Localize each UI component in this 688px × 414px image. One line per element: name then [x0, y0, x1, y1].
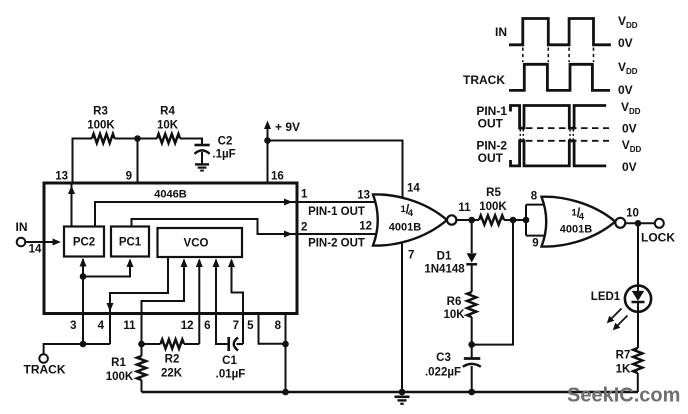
wire node X up to gate U3 inputs	[472, 220, 513, 345]
svg-text:OUT: OUT	[478, 117, 504, 131]
wire pin 7 to VCO	[232, 260, 244, 344]
wire gate U3 output to LOCK	[625, 222, 655, 224]
svg-text:+ 9V: + 9V	[275, 120, 300, 134]
svg-text:4001B: 4001B	[389, 222, 421, 234]
node R5 right junction	[510, 217, 517, 224]
waveform TRACK trace	[509, 64, 610, 90]
svg-text:TRACK: TRACK	[463, 73, 505, 87]
node R6 C3 junction	[468, 341, 475, 348]
svg-text:SeekIC.com: SeekIC.com	[567, 385, 680, 407]
svg-text:.01µF: .01µF	[216, 369, 246, 381]
svg-text:10K: 10K	[443, 309, 465, 321]
svg-text:4: 4	[98, 320, 105, 332]
svg-text:C3: C3	[436, 352, 451, 364]
wire gate U1 pin 7 to ground	[401, 244, 403, 393]
svg-text:9: 9	[126, 171, 132, 183]
svg-text:0V: 0V	[618, 83, 633, 97]
wire R4 to C2	[180, 139, 202, 146]
svg-text:5: 5	[247, 320, 254, 332]
node pin3 branch junction	[80, 273, 87, 280]
node C3 bus junction	[468, 389, 475, 396]
svg-text:16: 16	[271, 171, 284, 183]
node R3-R4-pin9 junction	[134, 135, 141, 142]
svg-text:R4: R4	[160, 106, 175, 118]
svg-text:2: 2	[301, 222, 307, 234]
svg-text:14: 14	[29, 244, 42, 256]
block PC2	[64, 227, 104, 257]
waveform PIN-2 OUT trace	[511, 141, 607, 166]
wire pin 5 stub	[259, 314, 286, 344]
svg-text:11: 11	[458, 202, 471, 214]
gate U1 output bubble	[447, 215, 456, 224]
svg-text:0V: 0V	[622, 160, 637, 174]
svg-text:4001B: 4001B	[560, 224, 592, 236]
wire LED1 to R7	[637, 312, 639, 348]
wire pin 3 to PC2 input	[82, 259, 84, 344]
svg-text:VCO: VCO	[184, 238, 209, 250]
node pin8 bus junction	[282, 389, 289, 396]
LED1 emission arrows	[611, 309, 622, 320]
svg-text:10K: 10K	[157, 120, 179, 132]
waveform PIN-1 OUT trace	[511, 106, 607, 129]
svg-text:.1µF: .1µF	[212, 149, 235, 161]
svg-text:C2: C2	[218, 136, 233, 148]
wire pin 12 to VCO	[198, 260, 200, 344]
svg-text:0V: 0V	[622, 122, 637, 136]
svg-text:TRACK: TRACK	[24, 363, 66, 377]
svg-text:6: 6	[204, 320, 210, 332]
ground bus wire	[142, 391, 639, 393]
svg-text:R7: R7	[616, 350, 631, 362]
ground at C2	[195, 163, 209, 165]
gate U3 1/4 4001B NOR	[542, 197, 616, 247]
IC U2 4046B outline	[44, 183, 297, 314]
dotted links between PIN-1 and PIN-2 pulses	[519, 130, 521, 140]
node +9V junction	[264, 137, 271, 144]
block PC1	[111, 227, 149, 257]
svg-text:LED1: LED1	[591, 291, 621, 303]
svg-text:22K: 22K	[161, 368, 183, 380]
terminal LOCK	[655, 219, 664, 228]
svg-text:.022µF: .022µF	[425, 367, 461, 379]
svg-text:10: 10	[626, 208, 639, 220]
svg-text:IN: IN	[495, 25, 507, 39]
wire gate U1 output to node 11	[456, 219, 471, 221]
node TRACK pin3 junction	[80, 341, 87, 348]
svg-text:D1: D1	[437, 251, 452, 263]
wire pin13 to R3 rail	[73, 139, 93, 183]
svg-text:7: 7	[233, 320, 239, 332]
svg-text:1N4148: 1N4148	[424, 264, 465, 276]
svg-text:R3: R3	[93, 106, 108, 118]
wire node 10 to LED1	[637, 223, 639, 285]
svg-text:13: 13	[55, 171, 68, 183]
svg-text:3: 3	[70, 320, 76, 332]
waveform PIN-1 OUT 0V dashed reference	[526, 127, 609, 129]
svg-text:PC1: PC1	[119, 237, 142, 249]
svg-text:8: 8	[275, 320, 282, 332]
wire VCO output to pin 4	[110, 257, 168, 344]
svg-text:1: 1	[301, 189, 308, 201]
svg-text:R1: R1	[111, 357, 126, 369]
node gate U1 pin7 bus junction	[399, 389, 406, 396]
ground symbol	[395, 395, 410, 398]
svg-text:1K: 1K	[616, 364, 631, 376]
node pin5-pin8 junction	[282, 341, 289, 348]
svg-text:IN: IN	[16, 220, 28, 234]
wire R3 to R4	[115, 138, 158, 140]
power +9V arrow	[264, 121, 271, 130]
svg-text:OUT: OUT	[478, 151, 504, 165]
wire branch to PC1 input	[83, 260, 130, 277]
wire pin 11 to VCO	[142, 260, 185, 344]
svg-text:13: 13	[357, 190, 370, 202]
svg-text:PIN-2 OUT: PIN-2 OUT	[308, 237, 365, 249]
gate U3 input bracket	[525, 205, 527, 236]
svg-text:12: 12	[359, 221, 372, 233]
wire TRACK to pins 3 and 4	[44, 344, 110, 354]
node R1 R2 pin11 junction	[138, 341, 145, 348]
wire PC2 to pin 1 PIN-1 OUT	[95, 202, 378, 227]
svg-text:R6: R6	[447, 296, 462, 308]
wire pin 8 stub to ground bus	[285, 314, 287, 392]
block VCO	[158, 228, 243, 257]
svg-text:9: 9	[532, 238, 538, 250]
svg-text:12: 12	[181, 320, 194, 332]
svg-text:4046B: 4046B	[154, 188, 186, 200]
svg-text:C1: C1	[222, 355, 237, 367]
terminal TRACK	[39, 354, 48, 363]
svg-text:LOCK: LOCK	[641, 231, 675, 245]
node 10 junction	[635, 220, 642, 227]
gate U3 output bubble	[615, 218, 625, 228]
wire PC2 output to pin 13	[71, 183, 73, 227]
svg-text:8: 8	[531, 191, 538, 203]
wire +9V rail to gate U1 pin 14	[268, 141, 403, 200]
waveform IN trace	[509, 19, 611, 45]
node gate U3 input junction	[523, 217, 530, 224]
wire pin 6 to VCO	[216, 260, 228, 344]
svg-text:7: 7	[408, 250, 414, 262]
svg-text:0V: 0V	[618, 36, 633, 50]
dashed edge alignment lines IN to TRACK	[522, 48, 524, 63]
svg-text:100K: 100K	[479, 201, 507, 213]
waveform PIN-2 OUT VDD dashed reference	[526, 140, 609, 142]
wire PC1 to pin 2 PIN-2 OUT	[132, 219, 379, 234]
gate U1 1/4 4001B NOR	[373, 194, 447, 245]
node 11 junction	[468, 217, 475, 224]
svg-text:14: 14	[407, 183, 420, 195]
svg-text:PC2: PC2	[73, 237, 95, 249]
svg-text:R2: R2	[165, 354, 180, 366]
svg-text:11: 11	[123, 320, 136, 332]
svg-text:100K: 100K	[87, 120, 115, 132]
wire IN to PC2 pin 14	[25, 241, 53, 243]
svg-text:PIN-1 OUT: PIN-1 OUT	[308, 206, 365, 218]
svg-text:R5: R5	[486, 187, 501, 199]
svg-text:100K: 100K	[106, 371, 134, 383]
